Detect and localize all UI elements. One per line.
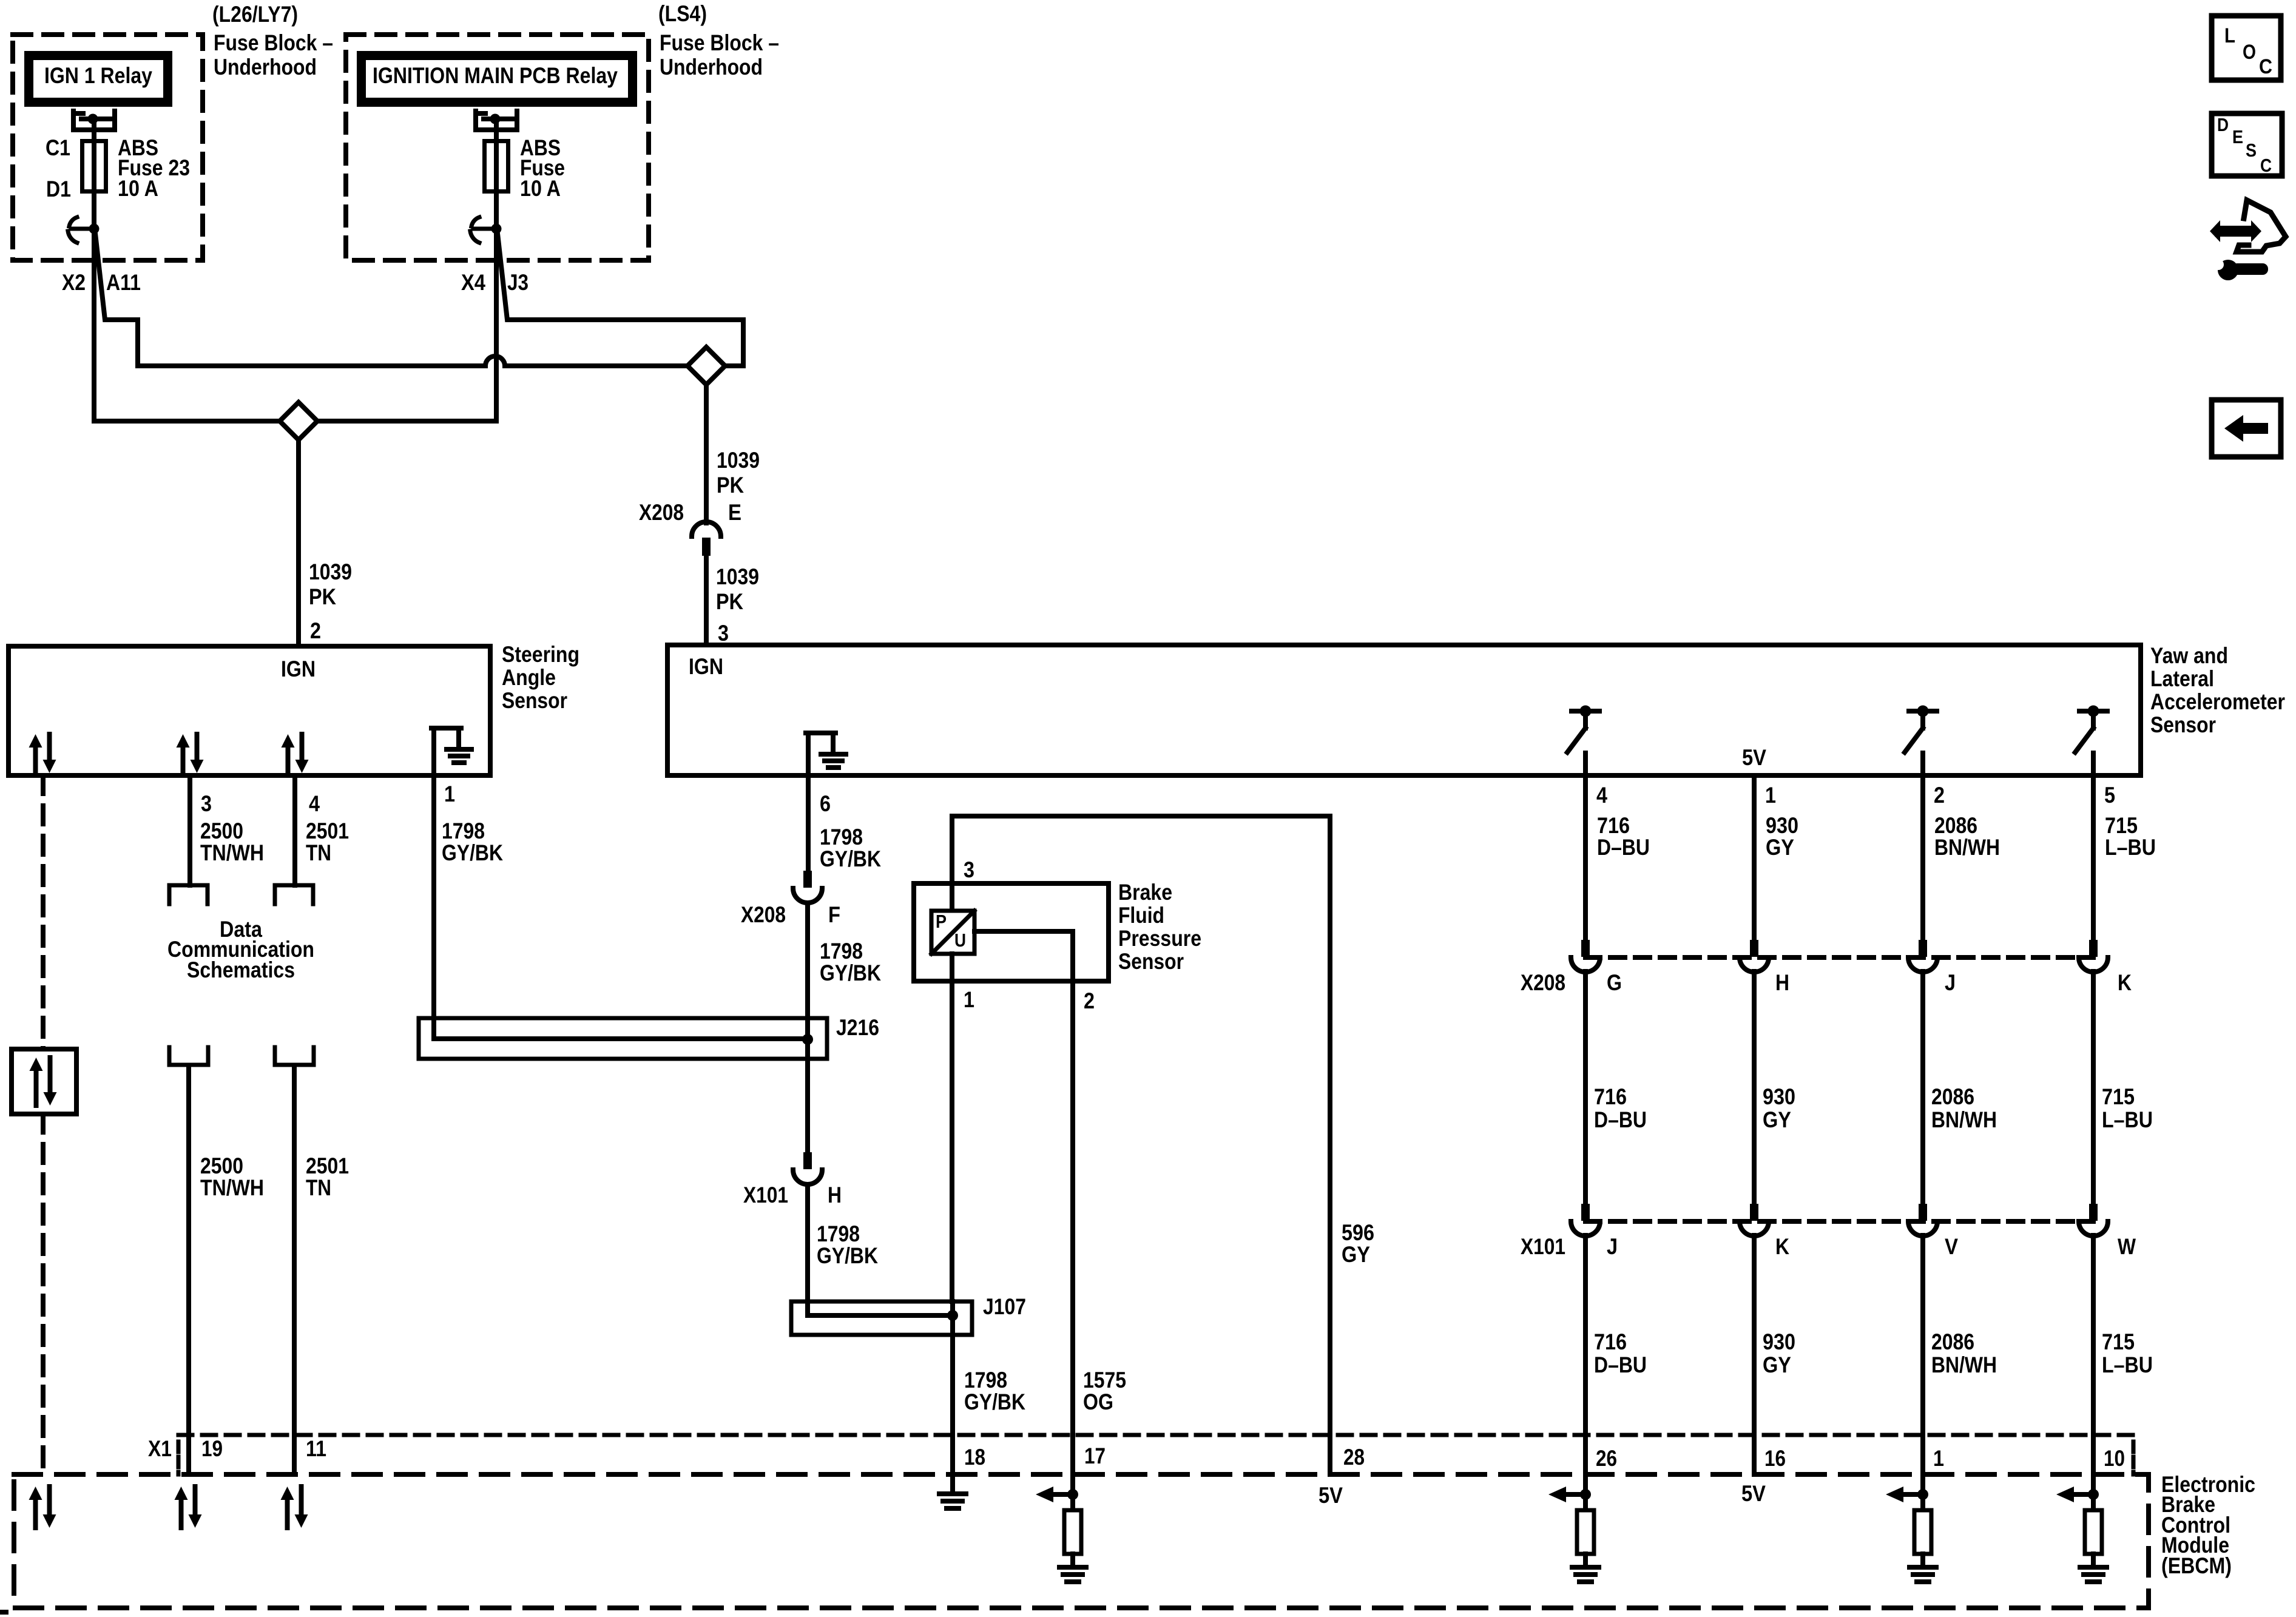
yaw sensor wiper pin stubs: [1583, 753, 1588, 775]
svg-text:2: 2: [1934, 783, 1945, 808]
svg-text:PK: PK: [717, 473, 744, 498]
svg-text:11: 11: [306, 1436, 326, 1461]
svg-text:GY/BK: GY/BK: [820, 960, 881, 985]
svg-text:J: J: [1945, 970, 1956, 995]
fuse block terminal (IGN1 output): [69, 217, 77, 226]
steering angle sensor box: [8, 646, 490, 775]
page connector box with updown arrows: [12, 1049, 76, 1114]
connector X208 cavity J: [1919, 940, 1927, 957]
steering pin 1 wire 1798 GY/BK to J216: [431, 775, 436, 1019]
wire J216 to X101-H: [805, 1059, 810, 1153]
svg-text:2086: 2086: [1931, 1329, 1974, 1354]
svg-text:BN/WH: BN/WH: [1934, 835, 2000, 860]
svg-text:E: E: [728, 500, 741, 525]
svg-text:930: 930: [1766, 813, 1798, 838]
svg-text:J3: J3: [507, 270, 528, 295]
svg-text:TN: TN: [306, 1175, 331, 1200]
svg-text:K: K: [2118, 970, 2132, 995]
svg-text:2501: 2501: [306, 1153, 349, 1178]
connector X101 cavity K: [1750, 1204, 1758, 1221]
off-page connector (pin3 down): [169, 885, 208, 904]
svg-text:J: J: [1607, 1234, 1618, 1259]
svg-text:Schematics: Schematics: [187, 957, 295, 982]
svg-text:F: F: [828, 902, 840, 927]
svg-text:(EBCM): (EBCM): [2161, 1553, 2232, 1578]
svg-text:TN: TN: [306, 840, 331, 865]
steering sensor internal ground (pin 1): [431, 728, 436, 775]
wire S2 down (1039 PK): [704, 385, 709, 523]
svg-text:E: E: [2232, 126, 2243, 147]
off-page connector (to EBCM pin 11): [275, 1047, 314, 1065]
svg-text:BN/WH: BN/WH: [1931, 1352, 1997, 1377]
svg-text:26: 26: [1596, 1446, 1617, 1471]
svg-text:GY: GY: [1342, 1242, 1370, 1267]
fuse F2 ABS Fuse 10 A: [485, 141, 508, 192]
svg-text:715: 715: [2102, 1329, 2135, 1354]
connector X101 cavity H: [803, 1152, 812, 1169]
svg-text:2086: 2086: [1934, 813, 1977, 838]
svg-text:X101: X101: [743, 1183, 788, 1207]
svg-text:2501: 2501: [306, 819, 349, 843]
svg-text:GY/BK: GY/BK: [442, 840, 503, 865]
yaw pin 6 wire 1798 GY/BK: [806, 775, 811, 871]
relay K2 IGNITION MAIN PCB Relay: [362, 56, 633, 103]
svg-text:1039: 1039: [717, 448, 760, 473]
wire pin 3 (2500 TN/WH) to data comm: [187, 775, 192, 885]
fuse F23 ABS Fuse 23 10 A: [83, 141, 106, 192]
icon LOC box: [2212, 16, 2281, 80]
svg-text:3: 3: [964, 857, 974, 882]
svg-text:10 A: 10 A: [520, 176, 561, 201]
brake sensor pin 2 wire (1575 OG): [974, 931, 1073, 1474]
svg-text:D–BU: D–BU: [1594, 1352, 1647, 1377]
svg-text:715: 715: [2105, 813, 2138, 838]
svg-text:X4: X4: [461, 270, 485, 295]
svg-text:716: 716: [1597, 813, 1630, 838]
svg-text:1039: 1039: [309, 559, 352, 584]
svg-text:GY: GY: [1763, 1107, 1791, 1132]
wire relay2 to fuse2: [494, 119, 499, 229]
svg-text:1798: 1798: [820, 825, 863, 849]
svg-text:OG: OG: [1083, 1389, 1113, 1414]
relay K1 IGN 1 Relay: [29, 56, 168, 103]
svg-text:596: 596: [1342, 1220, 1374, 1245]
svg-text:1: 1: [444, 781, 455, 806]
splice J216 box: [419, 1018, 827, 1059]
svg-text:1: 1: [964, 987, 974, 1012]
svg-text:TN/WH: TN/WH: [200, 1175, 264, 1200]
EBCM pin 17 pull-down: arrow, resistor, ground: [1070, 1474, 1075, 1510]
svg-text:930: 930: [1763, 1329, 1795, 1354]
svg-text:TN/WH: TN/WH: [200, 840, 264, 865]
svg-text:1575: 1575: [1083, 1368, 1126, 1393]
svg-text:716: 716: [1594, 1084, 1627, 1109]
splice S2 (option diamond): [687, 347, 725, 385]
svg-text:Steering: Steering: [502, 642, 579, 667]
svg-text:L: L: [2224, 24, 2235, 47]
svg-text:5V: 5V: [1741, 1481, 1766, 1506]
svg-text:10 A: 10 A: [118, 176, 158, 201]
yaw sensor wiper symbol pin 4: [1572, 709, 1599, 714]
svg-text:(L26/LY7): (L26/LY7): [212, 2, 298, 27]
splice J107 box: [791, 1301, 972, 1335]
yaw and lateral accelerometer sensor box: [667, 645, 2141, 775]
fuse block B2 (LS4) Fuse Block - Underhood (dashed): [346, 35, 649, 260]
svg-text:W: W: [2118, 1234, 2136, 1259]
splice S1 (option diamond): [280, 402, 317, 440]
icon harness routing (double arrow, part outline, wrench): [2220, 226, 2251, 237]
svg-text:D–BU: D–BU: [1597, 835, 1650, 860]
wire 930 GY (yaw pin 1 to EBCM 16): [1752, 775, 1757, 940]
svg-text:X208: X208: [639, 500, 684, 525]
J216 internal bus: [434, 1018, 808, 1039]
connector X101 cavity J: [1581, 1204, 1590, 1221]
svg-text:PK: PK: [716, 589, 743, 614]
icon back-arrow box: [2212, 400, 2281, 457]
wire S1 to steering angle sensor pin 2 (1039 PK): [296, 440, 301, 646]
svg-text:Lateral: Lateral: [2150, 666, 2214, 691]
svg-text:X208: X208: [1521, 970, 1565, 995]
svg-text:715: 715: [2102, 1084, 2135, 1109]
svg-text:D–BU: D–BU: [1594, 1107, 1647, 1132]
svg-text:1798: 1798: [442, 819, 485, 843]
svg-text:C1: C1: [46, 135, 70, 160]
svg-text:IGN 1 Relay: IGN 1 Relay: [44, 63, 152, 88]
wire X208-E to yaw sensor pin 3 (1039 PK): [704, 557, 709, 645]
P/U pressure transducer symbol: [950, 883, 954, 911]
yaw sensor internal ground (pin 6): [806, 733, 811, 775]
svg-text:J216: J216: [836, 1015, 879, 1040]
svg-text:2500: 2500: [200, 819, 243, 843]
wire 2501 TN to EBCM pin 11: [292, 1067, 297, 1474]
svg-text:1: 1: [1765, 783, 1776, 808]
svg-text:1039: 1039: [716, 564, 759, 589]
wire X101-H to J107 (1798 GY/BK): [805, 1185, 810, 1301]
svg-text:1798: 1798: [817, 1221, 860, 1246]
wire IGN1 branch down: [92, 229, 96, 421]
fuse block 2 terminal: [471, 217, 479, 226]
relay K1 output terminal: [73, 111, 115, 130]
dashed harness line (steering to EBCM): [41, 775, 46, 1049]
svg-text:3: 3: [201, 791, 212, 816]
connector X208 cavity G: [1581, 940, 1590, 957]
svg-text:X208: X208: [741, 902, 786, 927]
wire 2500 TN/WH to EBCM pin 19: [186, 1067, 191, 1474]
wire J107 to EBCM pin 18 (1798 GY/BK): [950, 1335, 955, 1474]
svg-text:19: 19: [201, 1436, 223, 1461]
brake sensor pin 1 wire: [950, 954, 954, 1301]
svg-text:1798: 1798: [820, 939, 863, 964]
svg-text:4: 4: [309, 791, 320, 816]
svg-text:18: 18: [964, 1445, 985, 1470]
EBCM dashed box: [14, 1474, 2149, 1608]
svg-text:Fuse Block –: Fuse Block –: [660, 30, 779, 55]
off-page connector (pin4 down): [275, 885, 313, 904]
svg-text:C: C: [2260, 155, 2272, 176]
svg-text:D: D: [2217, 114, 2229, 135]
wire X208-F to J216 (1798 GY/BK): [805, 903, 810, 1018]
svg-text:2086: 2086: [1931, 1084, 1974, 1109]
svg-text:J107: J107: [983, 1294, 1026, 1319]
svg-text:(LS4): (LS4): [658, 1, 707, 26]
svg-text:C: C: [2259, 55, 2272, 78]
svg-text:Accelerometer: Accelerometer: [2150, 689, 2285, 714]
fuse block B1 (L26/LY7) Fuse Block - Underhood (dashed): [13, 35, 203, 260]
596 GY loop wire (pin3 brake sensor to EBCM 28): [952, 816, 1330, 1474]
wire IGN MAIN diagonal branch: [498, 234, 743, 366]
wire hop over X4 wire: [485, 356, 505, 366]
svg-text:X101: X101: [1521, 1234, 1565, 1259]
connector X1 boundary (fine dashed): [178, 1433, 2133, 1437]
yaw sensor wiper symbol pin 2: [1909, 709, 1937, 714]
svg-text:BN/WH: BN/WH: [1931, 1107, 1997, 1132]
svg-text:Brake: Brake: [1118, 880, 1172, 905]
svg-text:P: P: [936, 911, 947, 932]
brake fluid pressure sensor box: [914, 883, 1109, 981]
svg-text:Sensor: Sensor: [502, 688, 567, 713]
svg-text:D1: D1: [46, 177, 71, 201]
svg-text:Sensor: Sensor: [1118, 949, 1184, 974]
connector X208 cavity F: [803, 871, 812, 888]
svg-text:G: G: [1607, 970, 1622, 995]
svg-text:5V: 5V: [1319, 1483, 1343, 1508]
J107 internal bus: [808, 1301, 953, 1315]
svg-text:K: K: [1775, 1234, 1789, 1259]
svg-text:X1: X1: [148, 1436, 172, 1461]
svg-text:O: O: [2243, 41, 2256, 64]
svg-text:L–BU: L–BU: [2102, 1352, 2153, 1377]
svg-text:U: U: [954, 930, 966, 951]
connector X208 cavity H: [1750, 940, 1758, 957]
svg-text:GY/BK: GY/BK: [817, 1243, 878, 1268]
yaw sensor wiper symbol pin 5: [2079, 709, 2107, 714]
svg-text:Underhood: Underhood: [660, 55, 763, 79]
connector X208 cavity K: [2089, 940, 2098, 957]
svg-text:X2: X2: [62, 270, 86, 295]
svg-text:Angle: Angle: [502, 665, 556, 690]
svg-text:GY/BK: GY/BK: [820, 846, 881, 871]
svg-text:716: 716: [1594, 1329, 1627, 1354]
svg-text:GY: GY: [1763, 1352, 1791, 1377]
svg-text:930: 930: [1763, 1084, 1795, 1109]
svg-text:Pressure: Pressure: [1118, 926, 1201, 951]
wire IGN1 to splice S1: [94, 419, 280, 424]
wire to splice S2 left: [505, 363, 687, 368]
connector X101 cavity V: [1919, 1204, 1927, 1221]
svg-text:2: 2: [310, 618, 321, 643]
wire pin 4 (2501 TN) to data comm: [292, 775, 297, 885]
X101 connector dashed link: [1585, 1219, 2093, 1224]
off-page connector (to EBCM pin 19): [169, 1047, 208, 1065]
wire 2086 BN/WH (yaw pin 2 to EBCM 1): [1920, 775, 1925, 940]
EBCM updown arrows: [33, 1499, 38, 1528]
icon DESC box: [2212, 113, 2282, 176]
wire IGN MAIN to splice S1: [317, 419, 496, 424]
svg-text:Yaw and: Yaw and: [2150, 643, 2228, 668]
svg-text:6: 6: [820, 791, 831, 816]
svg-text:L–BU: L–BU: [2102, 1107, 2153, 1132]
svg-text:IGN: IGN: [689, 654, 723, 679]
svg-text:H: H: [828, 1183, 842, 1207]
EBCM pin 10 pull-down: arrow, resistor, ground: [2091, 1474, 2096, 1510]
svg-text:Fuse Block –: Fuse Block –: [214, 30, 333, 55]
stray mark bottom-left: [0, 1610, 8, 1615]
svg-text:Fluid: Fluid: [1118, 903, 1164, 928]
svg-text:5: 5: [2104, 783, 2115, 808]
EBCM pin 18 ground: [950, 1474, 955, 1493]
svg-text:S: S: [2246, 140, 2257, 161]
svg-text:Sensor: Sensor: [2150, 712, 2216, 737]
wire relay to fuse: [92, 119, 96, 229]
X208 connector dashed link: [1585, 955, 2093, 960]
svg-text:5V: 5V: [1742, 745, 1766, 770]
svg-text:V: V: [1945, 1234, 1958, 1259]
svg-text:28: 28: [1343, 1445, 1365, 1470]
wire 716 D-BU (yaw pin 4 to EBCM 26): [1583, 775, 1588, 940]
EBCM pin 1 pull-down: arrow, resistor, ground: [1920, 1474, 1925, 1510]
wire IGN MAIN branch down: [494, 229, 499, 421]
EBCM pin 26 pull-down: arrow, resistor, ground: [1583, 1474, 1588, 1510]
svg-text:IGNITION MAIN PCB Relay: IGNITION MAIN PCB Relay: [373, 63, 618, 88]
wire 715 L-BU (yaw pin 5 to EBCM 10): [2091, 775, 2096, 940]
svg-text:1798: 1798: [964, 1368, 1007, 1393]
svg-text:Underhood: Underhood: [214, 55, 317, 79]
svg-text:2500: 2500: [200, 1153, 243, 1178]
svg-text:4: 4: [1596, 783, 1607, 808]
svg-text:1: 1: [1933, 1446, 1944, 1471]
svg-text:L–BU: L–BU: [2105, 835, 2156, 860]
svg-text:H: H: [1775, 970, 1789, 995]
svg-text:PK: PK: [309, 584, 336, 609]
relay K2 output terminal: [476, 111, 517, 130]
svg-text:16: 16: [1764, 1446, 1786, 1471]
svg-text:A11: A11: [106, 270, 141, 295]
svg-text:3: 3: [718, 621, 729, 646]
wire IGN1 diagonal branch (connector crossing): [95, 234, 485, 366]
svg-text:IGN: IGN: [281, 657, 316, 681]
svg-text:10: 10: [2104, 1446, 2125, 1471]
svg-text:GY/BK: GY/BK: [964, 1389, 1025, 1414]
svg-text:GY: GY: [1766, 835, 1794, 860]
connector X208 cavity E: [692, 522, 721, 536]
svg-text:2: 2: [1084, 988, 1095, 1013]
connector X101 cavity W: [2089, 1204, 2098, 1221]
svg-text:17: 17: [1084, 1443, 1106, 1468]
steering sensor internal updown arrows: [33, 746, 38, 773]
